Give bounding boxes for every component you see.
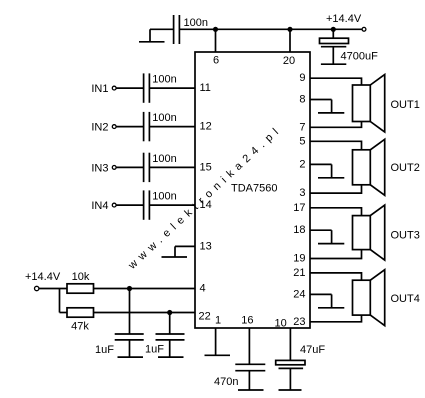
- svg-text:1uF: 1uF: [145, 344, 164, 356]
- wire pin 1 down: [215, 328, 217, 355]
- svg-text:1: 1: [215, 315, 221, 327]
- svg-text:+14.4V: +14.4V: [326, 13, 362, 25]
- svg-text:OUT3: OUT3: [391, 230, 420, 242]
- svg-text:7: 7: [299, 121, 305, 133]
- wire pin 20 stub: [289, 29, 291, 52]
- ground (pin 1): [205, 354, 231, 356]
- capacitor C2 100n plates: [143, 112, 145, 141]
- wire pin 19 to SP3: [310, 250, 362, 259]
- svg-text:100n: 100n: [152, 74, 176, 86]
- svg-text:17: 17: [293, 202, 305, 214]
- terminal IN1: [112, 86, 116, 90]
- svg-text:100n: 100n: [152, 191, 176, 203]
- node junction C7/pin4: [127, 286, 132, 291]
- wire IN1 to C1: [116, 87, 143, 89]
- capacitor C8 1uF: [169, 313, 171, 335]
- wire pin 9 to SP1: [310, 78, 362, 85]
- svg-text:1uF: 1uF: [95, 344, 114, 356]
- capacitor C3 100n plates: [143, 153, 145, 182]
- speaker SP3 cone: [370, 205, 384, 260]
- svg-text:9: 9: [299, 72, 305, 84]
- node junction pin20: [287, 27, 292, 32]
- speaker SP4 cone: [370, 270, 384, 326]
- terminal +14.4V supply: [362, 27, 366, 31]
- svg-text:47k: 47k: [71, 321, 89, 333]
- svg-text:16: 16: [241, 315, 253, 327]
- capacitor C7 1uF: [129, 289, 131, 335]
- ground (C7): [118, 356, 144, 358]
- svg-text:14: 14: [200, 199, 212, 211]
- speaker SP3 body: [353, 216, 371, 250]
- svg-text:IN1: IN1: [91, 83, 108, 95]
- svg-text:IN4: IN4: [91, 200, 108, 212]
- svg-text:10k: 10k: [72, 271, 90, 283]
- ground (top filter cap): [149, 29, 151, 42]
- wire top-left (ground to C5): [150, 28, 174, 30]
- wire R1 to pin 4: [94, 288, 196, 290]
- svg-text:100n: 100n: [152, 153, 176, 165]
- node junction C8/pin22: [167, 310, 172, 315]
- svg-text:23: 23: [293, 316, 305, 328]
- wire C1 to pin 11: [149, 87, 195, 89]
- svg-text:100n: 100n: [152, 112, 176, 124]
- wire pin 21 to SP4: [310, 273, 362, 280]
- svg-text:24: 24: [293, 288, 305, 300]
- svg-text:4700uF: 4700uF: [341, 51, 379, 63]
- ground (C6): [321, 63, 346, 65]
- wire IN4 to C4: [116, 204, 143, 206]
- wire C2 to pin 12: [149, 126, 195, 128]
- svg-text:8: 8: [299, 94, 305, 106]
- ground (pin 2): [331, 164, 333, 177]
- terminal IN4: [112, 203, 116, 207]
- capacitor C1 100n plates: [143, 73, 145, 102]
- wire pin 5 to SP2: [310, 141, 362, 150]
- wire pin 8: [310, 99, 332, 101]
- terminal IN3: [112, 166, 116, 170]
- wire IN2 to C2: [116, 126, 143, 128]
- wire pin 23 to SP4: [310, 315, 362, 322]
- svg-text:18: 18: [293, 224, 305, 236]
- svg-text:IN2: IN2: [91, 122, 108, 134]
- svg-text:6: 6: [213, 55, 219, 67]
- ground (pin 13): [174, 246, 176, 257]
- svg-text:11: 11: [200, 82, 211, 94]
- node junction pin6: [213, 27, 218, 32]
- ground (C10): [279, 389, 302, 391]
- svg-text:2: 2: [299, 158, 305, 170]
- speaker SP4 body: [353, 280, 371, 315]
- wire pin 13: [175, 245, 195, 247]
- svg-text:20: 20: [283, 55, 295, 67]
- svg-text:22: 22: [199, 310, 211, 322]
- wire C4 to pin 14: [149, 204, 195, 206]
- wire pin 18: [310, 229, 332, 231]
- wire top supply rail: [179, 28, 362, 30]
- wire branch to R2: [60, 312, 68, 314]
- ground (C8): [158, 356, 184, 358]
- speaker SP1 body: [353, 85, 371, 122]
- svg-text:OUT2: OUT2: [391, 162, 420, 174]
- wire R2 to pin 22: [94, 312, 196, 314]
- wire pin 7 to SP1: [310, 122, 362, 128]
- svg-text:19: 19: [293, 253, 305, 265]
- wire pin 17 to SP3: [310, 208, 362, 216]
- ground (pin 8): [331, 100, 333, 113]
- resistor R1 10k: [67, 284, 94, 293]
- capacitor C5 100n plates: [173, 15, 175, 44]
- wire terminal to R1: [39, 288, 67, 290]
- ground (pin 24): [331, 294, 333, 307]
- wire C3 to pin 15: [149, 166, 195, 168]
- svg-text:IN3: IN3: [91, 162, 108, 174]
- svg-text:10: 10: [275, 318, 287, 330]
- capacitor C10 47uF: [276, 360, 305, 364]
- terminal +14.4V bias: [35, 286, 39, 290]
- svg-text:12: 12: [200, 121, 212, 133]
- svg-text:13: 13: [200, 240, 212, 252]
- wire pin 16 down: [248, 328, 250, 364]
- node junction C6: [331, 27, 336, 32]
- wire pin 24: [310, 293, 332, 295]
- svg-text:OUT1: OUT1: [391, 99, 420, 111]
- speaker SP1 cone: [370, 75, 384, 133]
- wire IN3 to C3: [116, 166, 143, 168]
- svg-text:+14.4V: +14.4V: [25, 271, 61, 283]
- capacitor C4 100n plates: [143, 190, 145, 219]
- svg-text:OUT4: OUT4: [391, 293, 420, 305]
- svg-text:15: 15: [200, 161, 212, 173]
- svg-text:5: 5: [299, 135, 305, 147]
- terminal IN2: [112, 125, 116, 129]
- svg-text:4: 4: [200, 283, 206, 295]
- svg-text:TDA7560: TDA7560: [231, 183, 277, 195]
- speaker SP2 body: [353, 150, 371, 185]
- wire pin 6 stub: [215, 29, 217, 52]
- wire pin 2: [310, 163, 332, 165]
- ground (C9): [238, 389, 264, 391]
- svg-text:21: 21: [293, 267, 305, 279]
- svg-text:47uF: 47uF: [300, 344, 325, 356]
- wire pin 3 to SP2: [310, 185, 362, 193]
- svg-text:3: 3: [299, 187, 305, 199]
- speaker SP2 cone: [370, 139, 384, 195]
- svg-text:470n: 470n: [214, 376, 238, 388]
- op-amp U1 TDA7560 body: [195, 52, 310, 328]
- resistor R2 47k: [67, 308, 94, 317]
- capacitor C9 470n: [235, 363, 265, 365]
- wire pin 10 down: [289, 328, 291, 360]
- svg-text:100n: 100n: [184, 17, 208, 29]
- ground (pin 18): [331, 230, 333, 243]
- capacitor C6 4700uF: [332, 29, 334, 38]
- wire bias branch down: [59, 289, 61, 313]
